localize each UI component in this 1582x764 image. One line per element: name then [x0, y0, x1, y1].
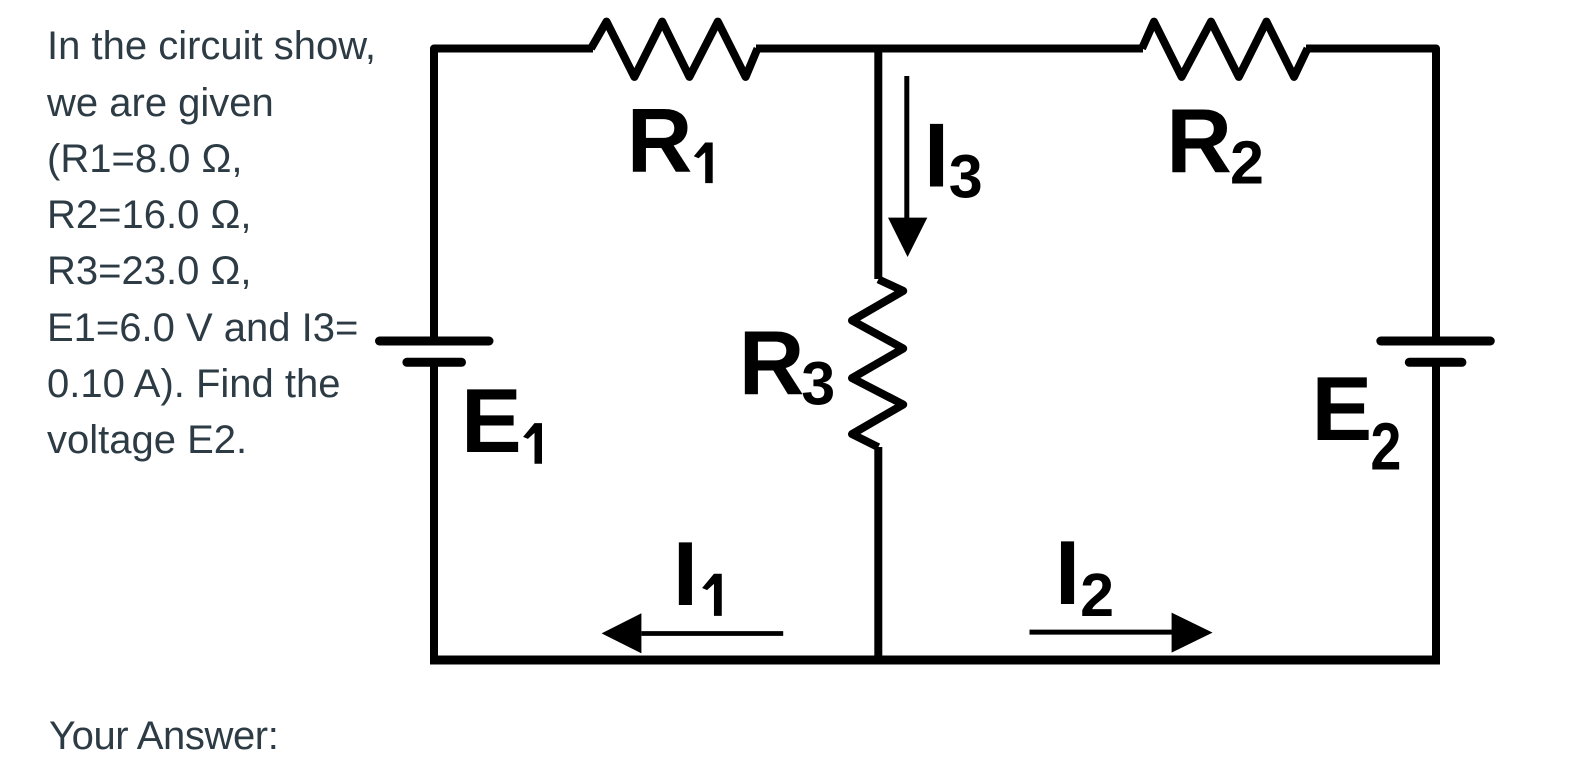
- svg-text:R: R: [739, 314, 805, 415]
- resistor R3: [852, 279, 903, 447]
- svg-text:2: 2: [1080, 561, 1114, 629]
- wire top-middle segment between R1 and R2: [756, 45, 1143, 53]
- wire top-right: top rail right segment + right rail upper: [1306, 49, 1436, 342]
- label I3: [924, 106, 983, 211]
- label R2: [1166, 92, 1264, 197]
- svg-text:I: I: [1055, 523, 1080, 624]
- label R1: [627, 91, 713, 192]
- label I1: [673, 524, 722, 625]
- svg-text:3: 3: [949, 143, 983, 211]
- resistor R1: [591, 22, 758, 77]
- answer label: [49, 708, 278, 764]
- svg-text:E: E: [461, 371, 522, 472]
- svg-text:R: R: [627, 91, 693, 192]
- svg-text:E: E: [1312, 359, 1373, 460]
- wire right rail lower: [1432, 362, 1440, 665]
- current arrow I3: [888, 76, 927, 257]
- wire left-top: left rail upper + top rail left segment: [434, 49, 593, 342]
- svg-text:3: 3: [801, 350, 835, 418]
- wire middle vertical lower (R3 to bottom rail): [874, 447, 882, 660]
- svg-text:I: I: [673, 524, 698, 625]
- current arrow I1: [602, 613, 784, 653]
- svg-text:I: I: [924, 106, 949, 207]
- wire left rail lower: [430, 362, 438, 665]
- battery E1: [380, 341, 490, 362]
- wire bottom rail: [430, 656, 1440, 665]
- question text: [47, 18, 376, 468]
- resistor R2: [1142, 22, 1308, 77]
- svg-text:2: 2: [1370, 410, 1401, 485]
- svg-text:R: R: [1166, 92, 1232, 193]
- current arrow I2: [1030, 613, 1213, 653]
- label E2: [1312, 359, 1402, 485]
- battery E2: [1381, 341, 1491, 362]
- label I2: [1055, 523, 1114, 629]
- wire middle vertical upper (node A to R3): [874, 45, 882, 280]
- svg-text:2: 2: [1230, 129, 1264, 197]
- label E1: [461, 371, 542, 472]
- label R3: [739, 314, 835, 418]
